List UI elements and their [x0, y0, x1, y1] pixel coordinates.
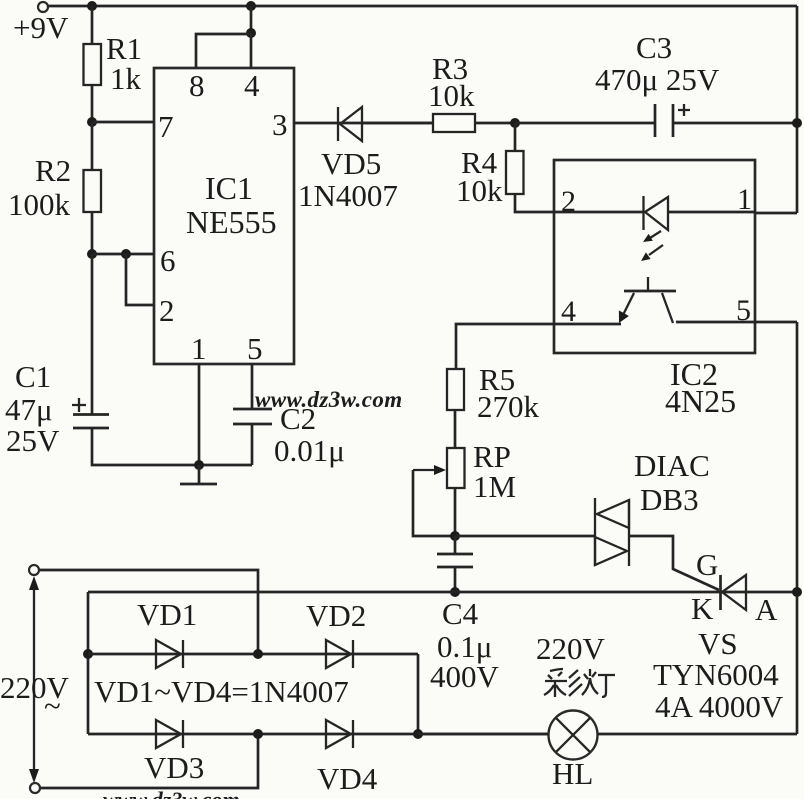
- wire R3 to node: [475, 122, 515, 125]
- main trigger line wire: [88, 591, 797, 594]
- wire R5 to RP: [454, 410, 457, 448]
- svg-text:4N25: 4N25: [665, 383, 736, 419]
- wire VD1 row: [88, 653, 418, 656]
- phototransistor of IC2: [624, 290, 676, 293]
- svg-text:DIAC: DIAC: [634, 448, 710, 483]
- wire R4 to IC2 pin2: [515, 194, 554, 212]
- svg-text:270k: 270k: [477, 389, 540, 424]
- svg-text:VD3: VD3: [144, 750, 204, 785]
- svg-text:100k: 100k: [8, 187, 71, 222]
- svg-text:1: 1: [191, 331, 207, 366]
- wire VD3 row: [88, 733, 549, 736]
- resistor R1: [84, 44, 102, 85]
- svg-text:www.dz3w.com: www.dz3w.com: [103, 787, 240, 799]
- svg-text:~: ~: [44, 688, 61, 723]
- diac DB3: [594, 498, 596, 566]
- wire R1 top: [91, 6, 94, 44]
- wire node to DIAC: [455, 535, 595, 538]
- wire RP bottom: [454, 488, 457, 536]
- resistor R4: [506, 151, 524, 194]
- wire pin5 collector: [676, 321, 755, 324]
- svg-text:VD1~VD4=1N4007: VD1~VD4=1N4007: [94, 674, 349, 709]
- node ground junction: [194, 460, 204, 470]
- optocoupler IC2 4N25 box: [554, 160, 755, 353]
- AC source 220V bottom terminal: [30, 783, 40, 793]
- svg-text:25V: 25V: [6, 423, 60, 458]
- diode VD2: [326, 640, 351, 668]
- svg-text:+9V: +9V: [13, 10, 69, 45]
- svg-text:A: A: [755, 592, 778, 627]
- wire VD5 to R3: [362, 122, 433, 125]
- svg-text:C1: C1: [15, 359, 51, 394]
- node thyristor anode rail: [792, 587, 802, 597]
- wire C2 bottom: [251, 424, 254, 465]
- node right rail C3: [792, 118, 802, 128]
- node at R1 top: [87, 1, 97, 11]
- svg-text:NE555: NE555: [186, 204, 277, 240]
- right rail top segment wire: [796, 6, 799, 213]
- wire bridge negative left leg: [87, 592, 90, 734]
- wire pin 3: [294, 122, 433, 125]
- svg-text:220V: 220V: [536, 631, 606, 666]
- capacitor C4: [454, 536, 457, 554]
- svg-text:IC1: IC1: [205, 170, 253, 206]
- wire to pin 7: [92, 121, 154, 124]
- svg-text:R2: R2: [35, 153, 71, 188]
- wire pin1 to right rail: [755, 212, 797, 215]
- svg-text:G: G: [696, 547, 718, 582]
- svg-text:www.dz3w.com: www.dz3w.com: [255, 387, 403, 412]
- svg-text:47μ: 47μ: [5, 392, 53, 427]
- AC source arrow line: [33, 584, 35, 777]
- +9V terminal: [38, 2, 48, 12]
- svg-text:VD4: VD4: [317, 761, 378, 796]
- wire node to C3: [515, 122, 654, 125]
- svg-text:VS: VS: [698, 626, 738, 661]
- svg-text:1k: 1k: [110, 61, 142, 96]
- diode VD1: [156, 640, 181, 668]
- diode VD5: [337, 107, 339, 141]
- lamp label CJK: [544, 669, 615, 697]
- wire bridge positive right leg: [417, 654, 420, 734]
- diode VD3: [156, 720, 181, 748]
- wire C1 top: [91, 254, 94, 414]
- wire pin 8 loop: [196, 34, 251, 68]
- wire C3 to right rail: [673, 122, 797, 125]
- wire lamp right: [598, 733, 798, 736]
- svg-text:HL: HL: [552, 756, 593, 791]
- C3 plus sign: [678, 104, 690, 116]
- IC1 NE555 box: [154, 68, 294, 364]
- node C4 bottom: [450, 587, 460, 597]
- node pin7 junction: [87, 117, 97, 127]
- resistor R5: [447, 369, 464, 410]
- svg-text:5: 5: [247, 331, 263, 366]
- svg-text:VD5: VD5: [321, 146, 381, 181]
- wire pin1 to ground: [198, 364, 201, 465]
- svg-text:4: 4: [244, 68, 260, 103]
- wire pin5 to C2: [251, 364, 254, 409]
- svg-text:3: 3: [272, 107, 288, 142]
- wire LED anode: [554, 211, 643, 214]
- svg-text:470μ 25V: 470μ 25V: [595, 62, 720, 97]
- wire DIAC to gate: [629, 536, 719, 590]
- LED arrows: [650, 231, 661, 238]
- svg-text:C4: C4: [442, 596, 479, 631]
- wire to pin 2: [126, 254, 154, 305]
- node pin2 branch: [121, 249, 131, 259]
- emitter with arrow: [623, 293, 634, 315]
- node AC to bridge bottom: [253, 729, 263, 739]
- wire to pin 6: [92, 253, 154, 256]
- lamp HL: [549, 711, 598, 760]
- collector: [662, 293, 673, 323]
- node loop junction: [246, 28, 256, 38]
- svg-text:0.01μ: 0.01μ: [274, 433, 345, 468]
- svg-text:VD1: VD1: [137, 597, 197, 632]
- node R4 top: [510, 118, 520, 128]
- wire R2 bottom: [91, 212, 94, 254]
- wire AC top: [39, 570, 258, 654]
- wire AC bottom: [40, 734, 258, 788]
- svg-text:1M: 1M: [473, 469, 516, 504]
- svg-text:1N4007: 1N4007: [298, 178, 398, 213]
- resistor R2: [91, 122, 94, 170]
- capacitor C1: [73, 413, 109, 416]
- right rail lower segment wire: [796, 322, 799, 734]
- wire pin 4: [250, 33, 253, 68]
- wire R1 bottom: [91, 85, 94, 122]
- thyristor VS: [719, 575, 722, 610]
- node RP C4 junction: [450, 531, 460, 541]
- svg-text:6: 6: [160, 243, 176, 278]
- RP wiper arrow: [413, 469, 440, 471]
- C1 plus sign: [72, 398, 86, 412]
- node bridge positive lamp: [413, 729, 423, 739]
- node AC to bridge top: [253, 649, 263, 659]
- node top rail to reset: [246, 1, 256, 11]
- wire LED cathode to pin1: [668, 211, 755, 214]
- svg-text:VD2: VD2: [306, 598, 366, 633]
- svg-text:7: 7: [158, 109, 174, 144]
- wire C1 bottom: [92, 428, 252, 465]
- svg-text:400V: 400V: [430, 659, 500, 694]
- wire pin5 to right rail: [755, 321, 797, 324]
- svg-text:10k: 10k: [428, 78, 475, 113]
- svg-text:C3: C3: [636, 30, 672, 65]
- svg-text:K: K: [691, 591, 714, 626]
- svg-text:DB3: DB3: [640, 482, 699, 517]
- capacitor C3: [654, 104, 657, 137]
- ground: [198, 465, 201, 484]
- wire R4: [514, 123, 517, 151]
- AC source 220V top terminal: [29, 565, 39, 575]
- svg-text:10k: 10k: [456, 173, 503, 208]
- node VD1 anode: [83, 649, 93, 659]
- svg-text:TYN6004: TYN6004: [653, 657, 779, 692]
- wire pin4 emitter: [554, 323, 621, 326]
- capacitor C2: [233, 408, 272, 411]
- wire pin4 to R5: [456, 324, 554, 369]
- potentiometer RP: [447, 448, 465, 488]
- svg-text:4A 4000V: 4A 4000V: [655, 689, 784, 724]
- top +9V rail wire: [48, 5, 797, 8]
- LED of IC2: [642, 196, 644, 230]
- resistor R3: [433, 114, 475, 132]
- svg-text:2: 2: [159, 293, 175, 328]
- wire rail to pin4/8 loop: [250, 6, 253, 33]
- diode VD4: [326, 720, 351, 748]
- svg-text:8: 8: [189, 68, 205, 103]
- wire RP wiper loop: [413, 470, 455, 536]
- wire lamp left: [418, 733, 549, 736]
- node pin6 junction: [87, 249, 97, 259]
